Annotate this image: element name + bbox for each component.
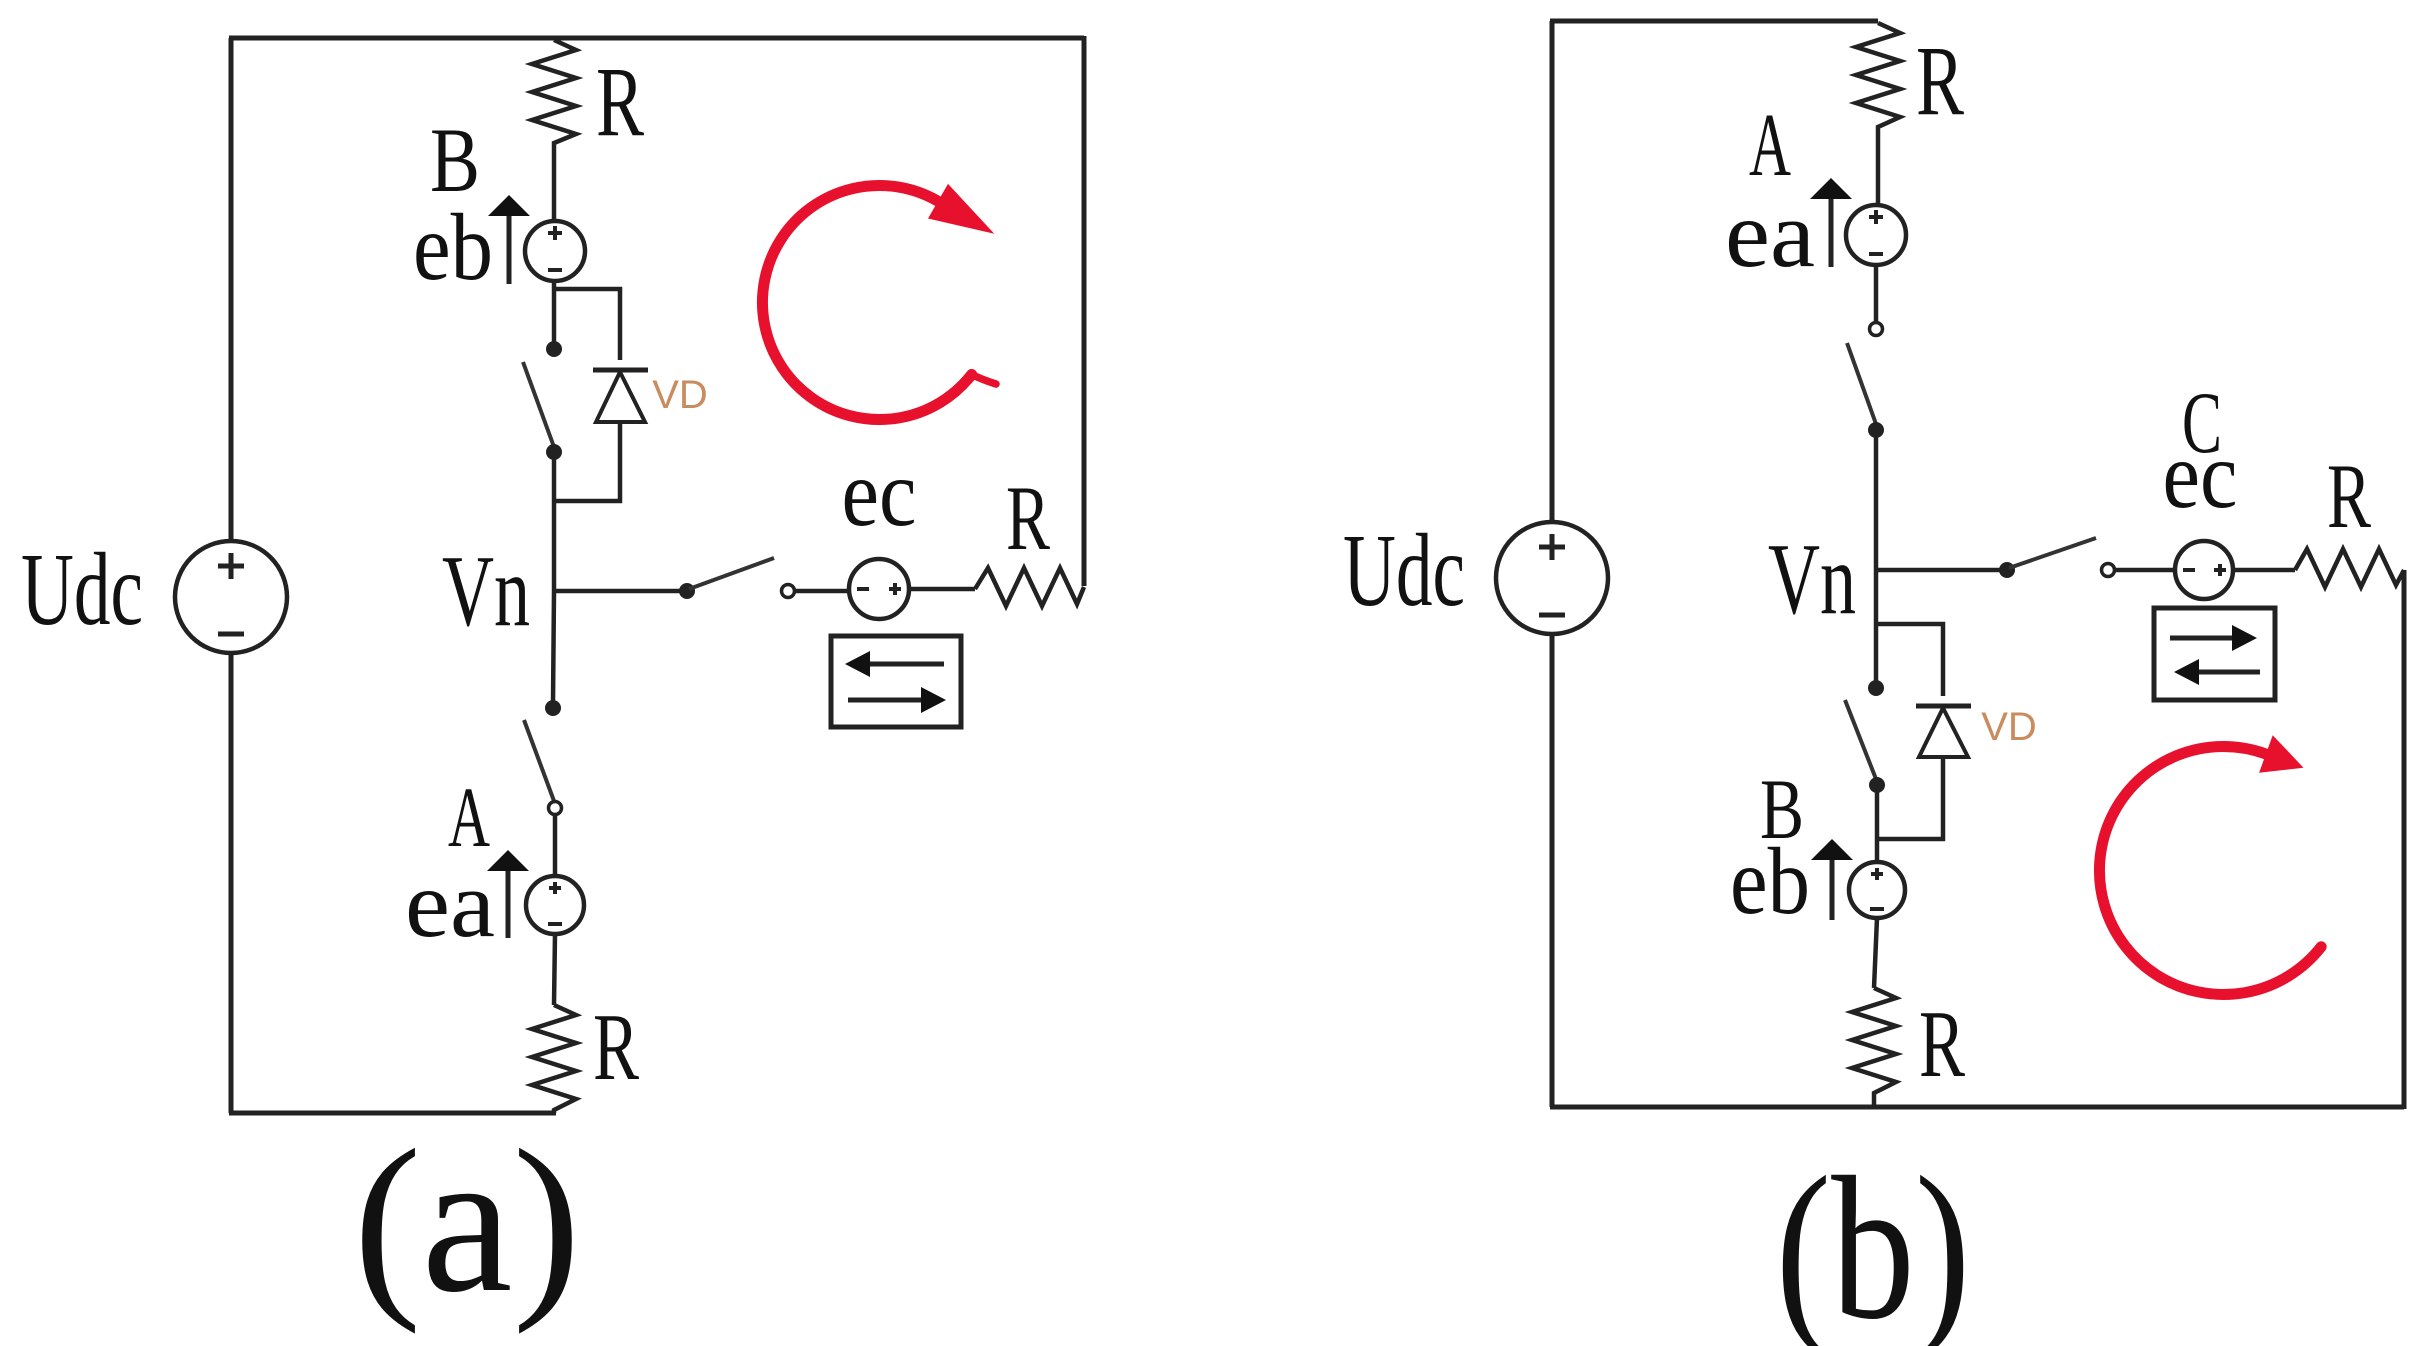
- resistor R5 right (b): [2295, 549, 2404, 587]
- wire ea to resistor (a): [554, 934, 555, 1005]
- svg-text:(b): (b): [1776, 1135, 1971, 1346]
- switch S4 open terminal (b): [1870, 323, 1883, 336]
- wire to ec (b): [2115, 568, 2175, 573]
- wire diode branch bottom (a): [554, 422, 620, 501]
- switch S4 blade (b): [1847, 343, 1876, 424]
- node dot switch bottom terminal (b): [1868, 422, 1884, 438]
- wire ea to switch (b): [1874, 265, 1879, 322]
- direction legend box (a): [831, 636, 961, 727]
- emf direction arrow ea (a): [487, 850, 529, 938]
- svg-text:R: R: [1919, 991, 1965, 1097]
- resistor R3 bottom (a): [532, 1005, 576, 1113]
- svg-text:VD: VD: [652, 373, 708, 417]
- wire eb to resistor (b): [1874, 918, 1877, 988]
- diode VD (a): [593, 370, 648, 422]
- svg-text:Udc: Udc: [21, 532, 143, 647]
- svg-text:R: R: [596, 46, 644, 157]
- red circulating current arrow (a): [762, 184, 996, 420]
- voltage source Udc (b): [1496, 522, 1608, 634]
- node dot Vn switch terminal (b): [1999, 562, 2015, 578]
- wire to ec (a): [795, 589, 849, 594]
- source ec circle (a): [849, 559, 909, 619]
- svg-text:Vn: Vn: [1768, 523, 1856, 636]
- switch S2 blade (a): [689, 558, 774, 589]
- svg-text:ea: ea: [405, 851, 495, 957]
- svg-text:VD: VD: [1981, 705, 2037, 749]
- emf direction arrow eb (a): [488, 195, 530, 284]
- voltage source Udc (a): [175, 541, 287, 653]
- wire right border (b): [2402, 570, 2407, 1109]
- wire top border (a): [229, 36, 1084, 41]
- switch S1 blade (a): [523, 362, 554, 447]
- wire switch to Vn (a): [552, 452, 557, 591]
- wire Vn down to lower switch (a): [553, 591, 554, 703]
- svg-text:R: R: [2327, 445, 2371, 547]
- emf direction arrow ea (b): [1810, 178, 1852, 267]
- wire switch to ea (a): [553, 814, 558, 876]
- wire diode branch top (b): [1876, 624, 1943, 696]
- node dot lower switch top terminal (a): [545, 700, 561, 716]
- emf direction arrow eb (b): [1811, 839, 1853, 920]
- switch S6 blade (b): [1845, 700, 1876, 779]
- svg-text:Udc: Udc: [1343, 513, 1465, 628]
- resistor R1 top (a): [532, 40, 576, 221]
- source ea circle (b): [1846, 205, 1906, 265]
- switch S3 blade (a): [524, 720, 554, 801]
- wire Vn down to diode branch (b): [1874, 570, 1879, 681]
- node dot lower switch bottom terminal (b): [1869, 777, 1885, 793]
- wire right border (a): [1082, 36, 1087, 586]
- wire eb to switch (a): [552, 281, 557, 344]
- svg-text:eb: eb: [1730, 828, 1810, 934]
- wire diode branch top (a): [554, 289, 620, 360]
- svg-text:ea: ea: [1725, 181, 1815, 287]
- svg-text:Vn: Vn: [442, 535, 530, 648]
- svg-text:(a): (a): [353, 1108, 581, 1335]
- node dot lower switch top terminal (b): [1868, 680, 1884, 696]
- wire Vn horizontal (a): [554, 589, 687, 594]
- node dot switch bottom terminal (a): [546, 444, 562, 460]
- resistor R2 right (a): [975, 568, 1084, 606]
- wire left border (a): [229, 38, 234, 541]
- wire left border lower (b): [1550, 634, 1555, 1107]
- wire left border lower (a): [229, 653, 234, 1113]
- switch S3 open terminal (a): [549, 802, 562, 815]
- wire bottom border (b): [1550, 1105, 2404, 1110]
- source ec circle (b): [2175, 541, 2233, 599]
- svg-text:R: R: [1006, 467, 1050, 569]
- switch S5 open terminal (b): [2102, 564, 2115, 577]
- direction legend box (b): [2154, 608, 2275, 700]
- red circulating current arrow (b): [2099, 735, 2321, 994]
- svg-text:eb: eb: [413, 194, 493, 300]
- wire ec to resistor (a): [909, 587, 975, 592]
- wire bottom border (a): [229, 1111, 556, 1116]
- svg-text:ec: ec: [842, 440, 917, 546]
- wire top border (b): [1550, 19, 1878, 24]
- wire switch to eb (b): [1875, 785, 1880, 862]
- switch S2 open terminal (a): [782, 585, 795, 598]
- wire diode branch bottom (b): [1877, 757, 1943, 839]
- wire ec to resistor (b): [2233, 568, 2295, 573]
- wire Vn horizontal (b): [1876, 568, 2007, 573]
- switch S5 blade (b): [2009, 538, 2096, 568]
- diode VD (b): [1916, 706, 1971, 757]
- source eb circle (b): [1849, 862, 1905, 918]
- source ea circle (a): [526, 876, 584, 934]
- node dot Vn switch terminal (a): [679, 583, 695, 599]
- wire switch to Vn (b): [1874, 430, 1879, 570]
- svg-text:ec: ec: [2163, 422, 2238, 528]
- resistor R4 top (b): [1856, 23, 1900, 204]
- wire left border (b): [1550, 21, 1555, 522]
- svg-text:R: R: [1916, 25, 1964, 136]
- svg-text:R: R: [593, 994, 639, 1100]
- resistor R6 bottom (b): [1852, 988, 1896, 1107]
- node dot switch top terminal (a): [546, 341, 562, 357]
- source eb circle (a): [525, 221, 585, 281]
